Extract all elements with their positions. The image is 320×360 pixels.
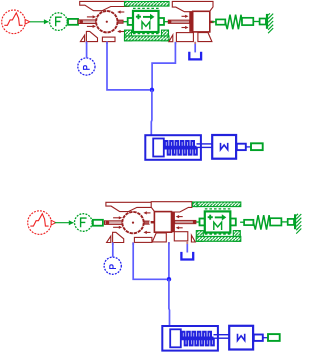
piston 2 lower block (174, 232, 188, 241)
tank 1 (189, 42, 201, 60)
hydraulic jack row 1 (145, 135, 262, 160)
force transducer U2 (55, 214, 103, 232)
junction node 2 (167, 277, 172, 282)
wire junction2 to jack (168, 279, 171, 326)
ball valve 1 (78, 1, 129, 41)
wire valve to gauge (86, 42, 88, 58)
wire piston2 to junction (168, 242, 170, 278)
signal source 2 (28, 211, 56, 235)
wire junction to jack (150, 90, 153, 135)
pressure gauge P2 (104, 257, 121, 274)
pressure gauge P1 (78, 58, 95, 75)
piston assembly 1 (164, 1, 214, 41)
hydraulic jack row 2 (162, 326, 279, 351)
tank 2 (181, 242, 193, 260)
spring chain 2 (240, 214, 301, 234)
signal source 1 (2, 10, 30, 34)
port stubs top circuit (86, 41, 177, 44)
piston assembly 2 (mirrored) (151, 202, 201, 242)
joint gap patch (149, 221, 151, 224)
piston 1 lower block (176, 33, 193, 42)
valve 2 seat block (134, 237, 152, 242)
wire valve2 to junction (133, 243, 166, 280)
junction node 1 (150, 88, 155, 93)
mass M1 (125, 2, 170, 41)
port stubs bottom circuit (112, 242, 170, 245)
force transducer U1 (30, 13, 78, 31)
wire piston to junction (152, 42, 175, 88)
wire valve2 to gauge (112, 243, 114, 257)
ball valve 2 (105, 202, 156, 242)
wire valve to junction (107, 42, 150, 90)
upper wall extension (193, 202, 198, 207)
valve 1 seat block (102, 37, 115, 42)
mass M2 (196, 202, 241, 241)
spring chain 1 (212, 13, 273, 33)
